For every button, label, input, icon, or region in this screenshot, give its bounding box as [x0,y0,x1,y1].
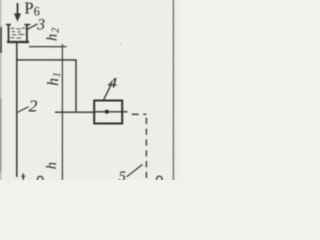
pressure arrow P6 head [14,13,21,21]
tank 3 right top tick [24,24,30,26]
tank 3 left wall [8,24,10,42]
dashed control line horizontal [132,113,139,115]
cut-off mark bottom left crossbar [21,175,25,177]
cut-off circle bottom right [157,176,163,182]
tank 3 left top tick [6,24,11,26]
cut-off circle bottom left [37,176,43,182]
water surface hatching row 1 [10,27,25,30]
leader line for label 5 [127,165,143,177]
left page edge dark segment [0,27,2,53]
svg-text:3: 3 [36,17,45,34]
water surface hatching row 4 [10,37,21,39]
device 4 box [94,101,122,124]
centerline through device 4 [94,111,127,113]
svg-text:2: 2 [29,96,38,115]
left page edge lower segment [0,98,2,172]
svg-text:4: 4 [108,76,118,92]
faint speck [120,43,122,45]
pipe lower horizontal run to device [55,111,94,113]
dimension line vertical h2 h1 h [61,44,63,180]
node dot in device 4 [105,110,109,114]
pipe right vertical drop [75,59,77,112]
dashed corner dash [143,113,146,115]
right border line [172,0,174,180]
leader line to tank for label 3 [26,24,37,30]
tank 3 right wall [26,24,28,42]
cut-off mark bottom left vertical stroke [22,173,24,180]
svg-text:h: h [44,162,60,169]
water surface hatching row 3 [12,34,24,36]
pressure arrow P6 shaft [17,3,19,15]
scan grain [0,0,180,180]
pipe upper horizontal run [17,59,77,61]
water surface hatching row 2 [12,31,22,33]
left page edge [0,0,2,180]
pipe 2 vertical from tank to bottom [16,43,18,178]
leader line for label 4 [103,82,112,101]
svg-text:5: 5 [119,169,126,180]
dashed control line corner and vertical [145,114,147,180]
tank 3 bottom [7,41,29,43]
extension line for h2 [29,46,67,48]
leader line for label 2 [18,107,29,113]
